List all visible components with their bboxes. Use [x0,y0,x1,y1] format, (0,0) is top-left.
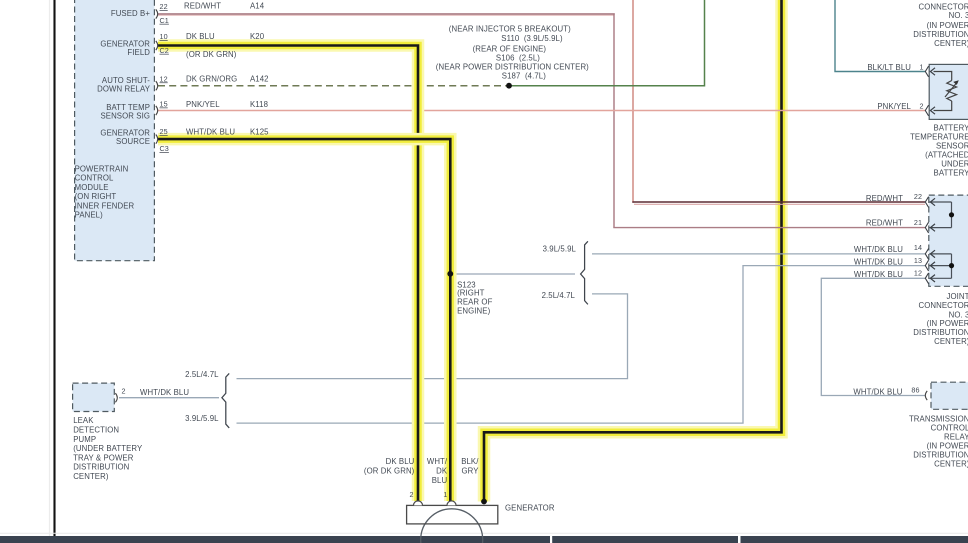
svg-text:25: 25 [160,127,168,136]
svg-text:(IN POWER: (IN POWER [927,21,968,30]
joint connector pin 12 terminal [925,273,928,284]
svg-text:POWERTRAIN: POWERTRAIN [75,165,129,174]
svg-text:BLK/LT BLU: BLK/LT BLU [867,63,911,72]
svg-text:S106 (2.5L): S106 (2.5L) [496,53,540,62]
joint connector pin 22 terminal [925,197,928,208]
pump pin socket arc [115,393,117,402]
svg-text:2: 2 [919,102,923,111]
PCM pin 15 socket [156,106,158,115]
svg-text:C2: C2 [160,46,169,55]
svg-text:DOWN RELAY: DOWN RELAY [97,85,151,94]
svg-text:21: 21 [914,218,922,227]
PCM module box (dashed) [75,0,155,261]
svg-text:BATTERY: BATTERY [934,169,968,178]
svg-text:K125: K125 [250,127,269,136]
svg-text:DK GRN/ORG: DK GRN/ORG [186,75,237,84]
svg-text:(RIGHT: (RIGHT [457,288,485,297]
svg-text:2: 2 [122,386,126,395]
svg-text:13: 13 [914,256,922,265]
svg-text:C3: C3 [160,144,169,153]
svg-text:(UNDER BATTERY: (UNDER BATTERY [73,444,143,453]
svg-text:DISTRIBUTION: DISTRIBUTION [913,328,968,337]
svg-text:DK BLU: DK BLU [386,457,415,466]
svg-text:DISTRIBUTION: DISTRIBUTION [913,450,968,459]
svg-text:FUSED B+: FUSED B+ [111,9,150,18]
svg-text:A142: A142 [250,75,269,84]
pump caption [73,416,143,481]
svg-text:12: 12 [160,74,168,83]
svg-text:RED/WHT: RED/WHT [866,219,903,228]
svg-text:WHT/DK BLU: WHT/DK BLU [140,388,189,397]
svg-text:SENSOR SIG: SENSOR SIG [100,111,150,120]
svg-text:TRANSMISSION: TRANSMISSION [909,414,968,423]
svg-text:BATTERY: BATTERY [934,123,968,132]
wire joint pin 12 to relay pin 86 [821,278,925,395]
battery temp sensor pin 2 terminal [925,105,928,116]
joint connector internal bus 22-21 [929,202,954,228]
svg-text:BLU: BLU [432,476,448,485]
wire RED/WHT A14 from PCM pin 22 [158,13,615,15]
wire joint pin 13 to pump brace [237,266,926,424]
svg-text:S187 (4.7L): S187 (4.7L) [502,72,546,81]
svg-text:JOINT: JOINT [946,292,968,301]
joint connector pin 13 terminal [925,260,928,271]
svg-text:DISTRIBUTION: DISTRIBUTION [73,463,129,472]
PCM pin 25 socket [156,135,158,144]
svg-text:CENTER): CENTER) [934,39,968,48]
svg-text:WHT/: WHT/ [427,457,448,466]
svg-text:GENERATOR: GENERATOR [505,503,555,512]
svg-text:WHT/DK BLU: WHT/DK BLU [186,127,235,136]
svg-text:GRY: GRY [461,467,479,476]
splice location text block [436,25,589,81]
PCM pin 10 socket [156,41,158,50]
wire DK GRN/ORG A142 (dashed) [158,85,509,87]
connector no. caption (top right) [913,3,968,48]
svg-text:LEAK: LEAK [73,416,94,425]
page margin rule (faint) [49,0,51,536]
svg-text:WHT/DK BLU: WHT/DK BLU [854,258,903,267]
svg-text:WHT/DK BLU: WHT/DK BLU [854,245,903,254]
wire BLK/GRY generator output (highlighted) [484,0,782,502]
svg-text:12: 12 [914,269,922,278]
wire 3.9L/5.9L branch to joint pin 14 [592,253,925,255]
svg-text:DISTRIBUTION: DISTRIBUTION [913,30,968,39]
generator wire labels [364,457,555,512]
svg-text:S110 (3.9L/5.9L): S110 (3.9L/5.9L) [501,34,563,43]
svg-text:(OR DK GRN): (OR DK GRN) [364,467,415,476]
PCM caption [75,165,135,220]
svg-text:RELAY: RELAY [944,432,968,441]
svg-text:FIELD: FIELD [127,48,150,57]
svg-text:MODULE: MODULE [75,183,109,192]
battery temp sensor caption [910,123,968,177]
wire RED/WHT from top to joint pin 22 [632,0,634,203]
brace S123 [581,241,588,304]
svg-text:NO. 3: NO. 3 [949,310,968,319]
battery temp sensor internal thermistor [934,72,959,111]
joint connector internal bus 14-13-12 [929,254,954,278]
svg-text:PNK/YEL: PNK/YEL [186,100,220,109]
wire DK GRN solid to top [509,0,705,86]
svg-text:3.9L/5.9L: 3.9L/5.9L [185,414,219,423]
svg-text:22: 22 [160,2,168,11]
battery temperature sensor box [929,64,968,119]
svg-text:TRAY & POWER: TRAY & POWER [73,453,134,462]
svg-text:CONTROL: CONTROL [931,423,968,432]
joint connector pin 21 terminal [925,222,928,233]
svg-text:K118: K118 [250,100,268,109]
svg-text:PNK/YEL: PNK/YEL [877,102,911,111]
generator B+ junction dot [481,499,487,505]
generator symbol [407,501,498,543]
svg-text:K20: K20 [250,32,265,41]
svg-text:(ON RIGHT: (ON RIGHT [75,192,117,201]
wire PNK/YEL K118 [158,110,925,112]
svg-text:SOURCE: SOURCE [116,137,150,146]
svg-text:A14: A14 [250,2,265,11]
svg-text:PUMP: PUMP [73,435,96,444]
svg-text:CONNECTOR: CONNECTOR [918,301,968,310]
svg-text:REAR OF: REAR OF [457,297,492,306]
svg-text:15: 15 [160,100,168,109]
svg-text:22: 22 [914,192,922,201]
PCM pin 12 socket [156,81,158,90]
svg-text:RED/WHT: RED/WHT [184,2,221,11]
splice S187 [506,83,512,89]
svg-text:2: 2 [410,490,414,499]
page border rule [53,0,55,536]
joint connector caption [913,292,968,346]
battery temp sensor pin 1 terminal [925,66,928,77]
svg-text:WHT/DK BLU: WHT/DK BLU [853,387,902,396]
PCM wire name labels [184,2,269,137]
svg-text:BLK/: BLK/ [461,457,479,466]
svg-text:1: 1 [443,490,447,499]
svg-text:3.9L/5.9L: 3.9L/5.9L [543,245,577,254]
svg-text:(ATTACHED: (ATTACHED [925,150,968,159]
wire BLK/LT BLU [835,0,925,72]
svg-text:(IN POWER: (IN POWER [927,319,968,328]
svg-text:WHT/DK BLU: WHT/DK BLU [854,270,903,279]
svg-text:86: 86 [911,386,919,395]
svg-text:DK: DK [436,467,448,476]
bottom status bar [0,536,968,543]
svg-text:DETECTION: DETECTION [73,426,119,435]
svg-text:CENTER): CENTER) [73,472,109,481]
svg-text:(OR DK GRN): (OR DK GRN) [186,50,237,59]
bottom status bar hairline [0,532,968,534]
PCM pin labels [97,9,151,146]
svg-text:RED/WHT: RED/WHT [866,194,903,203]
svg-text:CENTER): CENTER) [934,459,968,468]
svg-text:10: 10 [160,32,168,41]
svg-text:UNDER: UNDER [941,160,968,169]
svg-text:2.5L/4.7L: 2.5L/4.7L [185,370,219,379]
svg-text:2.5L/4.7L: 2.5L/4.7L [542,291,576,300]
S123 caption [457,280,492,315]
joint connector box [929,195,968,286]
wire pump pin 2 stem [119,397,219,399]
wire 2.5L/4.7L branch to pump brace [237,294,628,379]
svg-text:(NEAR INJECTOR 5 BREAKOUT): (NEAR INJECTOR 5 BREAKOUT) [449,25,571,34]
svg-text:(NEAR POWER DISTRIBUTION CENTE: (NEAR POWER DISTRIBUTION CENTER) [436,63,589,72]
svg-text:INNER FENDER: INNER FENDER [75,201,135,210]
svg-text:CENTER): CENTER) [934,337,968,346]
svg-text:SENSOR: SENSOR [936,141,968,150]
wire S123 stub to brace [452,273,575,275]
svg-text:ENGINE): ENGINE) [457,306,490,315]
svg-text:14: 14 [914,243,922,252]
joint connector pin 14 terminal [925,249,928,260]
right side pin numbers [911,63,923,395]
wire WHT/DK BLU K125 (highlighted) [158,139,450,501]
svg-text:TEMPERATURE: TEMPERATURE [910,132,968,141]
relay pin 86 socket arc [925,391,927,400]
svg-text:NO. 3: NO. 3 [949,11,968,20]
leak detection pump box [73,383,115,411]
brace leak detection pump [222,373,229,428]
wire DK BLU K20 (highlighted) [158,46,418,502]
PCM pin 22 socket [156,9,158,18]
PCM pin numbers and connector ids [160,2,169,153]
svg-text:DK BLU: DK BLU [186,32,215,41]
transmission control relay caption [909,414,968,468]
svg-text:PANEL): PANEL) [75,211,103,220]
svg-text:C1: C1 [160,16,169,25]
svg-text:1: 1 [919,63,923,72]
svg-text:(REAR OF ENGINE): (REAR OF ENGINE) [473,45,547,54]
svg-text:(IN POWER: (IN POWER [927,441,968,450]
right side wire labels [853,63,911,397]
transmission control relay box [931,382,968,409]
svg-text:CONTROL: CONTROL [75,174,114,183]
splice S123 [447,271,453,277]
